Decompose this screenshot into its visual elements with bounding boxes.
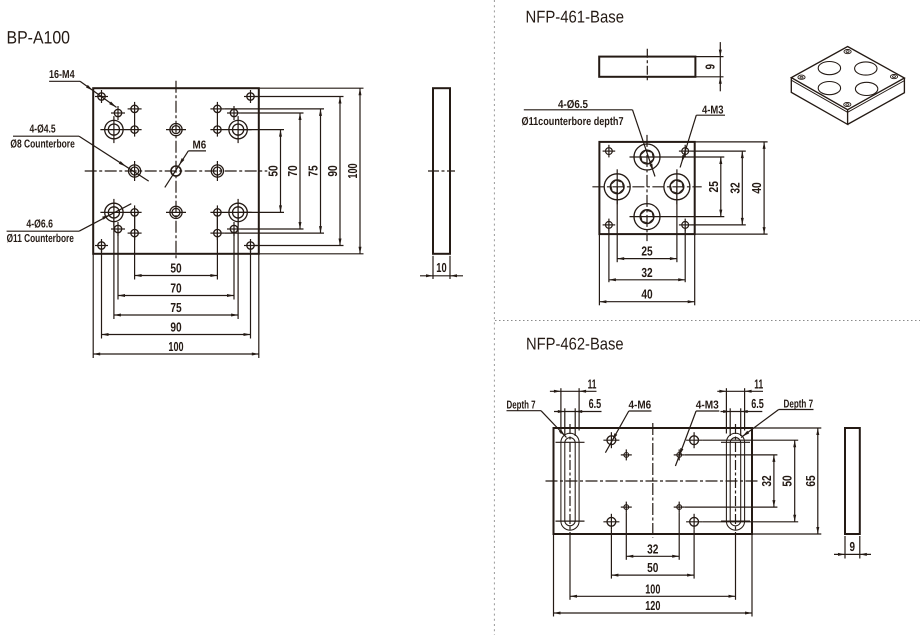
svg-text:40: 40 bbox=[641, 287, 652, 302]
svg-text:4-Ø6.6: 4-Ø6.6 bbox=[26, 218, 53, 230]
extension lines right 50 NFP-462 bbox=[702, 439, 798, 441]
extension lines bottom 32 NFP-461 bbox=[608, 228, 610, 282]
hole M3 corner BR NFP-461 bbox=[682, 222, 689, 229]
svg-text:6.5: 6.5 bbox=[589, 396, 602, 411]
dimension 6.5 right slot bbox=[721, 411, 763, 413]
slot centerline left bbox=[569, 424, 571, 538]
NFP-461 isometric hole UR bbox=[855, 62, 877, 75]
dimension 70 bottom bbox=[118, 295, 234, 297]
svg-text:32: 32 bbox=[759, 475, 774, 486]
NFP-461 isometric hole LL bbox=[818, 82, 840, 95]
counterbore hole Ø6.6/Ø11 (-37.5,25) bbox=[105, 203, 123, 221]
svg-text:32: 32 bbox=[727, 182, 742, 193]
dimension 50 bottom bbox=[135, 275, 218, 277]
hole M3 TR NFP-462 bbox=[677, 453, 682, 458]
svg-text:4-Ø6.5: 4-Ø6.5 bbox=[558, 99, 589, 111]
svg-text:50: 50 bbox=[647, 560, 658, 575]
hole M3 BR NFP-462 bbox=[677, 505, 682, 510]
slot Ø11 counterbore outer right bbox=[726, 433, 744, 530]
extension lines right y=±35 bbox=[241, 112, 304, 114]
svg-text:9: 9 bbox=[850, 539, 856, 554]
extension lines right y=±25 bbox=[238, 129, 284, 131]
hole Ø6.5/Ø11 counterbore right NFP-461 bbox=[664, 174, 690, 200]
extension lines bottom 25 NFP-461 bbox=[616, 187, 618, 262]
extension lines bottom x=±25 bbox=[134, 212, 136, 279]
hole Ø6.5/Ø11 counterbore bottom NFP-461 bbox=[634, 204, 660, 230]
svg-text:4-M3: 4-M3 bbox=[696, 400, 719, 412]
slot arc-center ticks left bbox=[556, 441, 585, 443]
dimension 9 NFP-462 bbox=[844, 536, 846, 559]
svg-text:50: 50 bbox=[780, 475, 795, 486]
dimension 120 bottom NFP-462 bbox=[554, 612, 753, 614]
dimension 32 right NFP-462 bbox=[773, 455, 775, 507]
side view BP-A100 outline bbox=[433, 88, 450, 254]
dimension 65 right NFP-462 bbox=[817, 428, 819, 534]
dimension 100 bottom NFP-462 bbox=[570, 595, 736, 597]
dimension 11 left slot bbox=[550, 390, 597, 392]
counterbore hole Ø6.6/Ø11 (37.5,25) bbox=[229, 203, 247, 221]
dimension 32 right NFP-461 bbox=[741, 151, 743, 225]
svg-text:100: 100 bbox=[645, 581, 660, 596]
separator dotted line vertical bbox=[493, 0, 495, 635]
svg-text:100: 100 bbox=[345, 163, 360, 178]
hole M6 BL NFP-462 bbox=[607, 517, 616, 526]
hole M4 corner BL bbox=[98, 242, 105, 249]
hole M4 (25,-37.5) bbox=[214, 105, 221, 112]
hole M3 BL NFP-462 bbox=[624, 505, 629, 510]
leader 4-M6 bbox=[629, 410, 652, 412]
slot arc-center ticks right bbox=[721, 441, 750, 443]
dimension 25 bottom NFP-461 bbox=[617, 258, 677, 260]
NFP-461 isometric chamfer line left bbox=[791, 80, 847, 112]
NFP-462 side view outline bbox=[845, 428, 860, 534]
svg-text:BP-A100: BP-A100 bbox=[7, 28, 71, 48]
dimension 100 right bbox=[359, 88, 361, 254]
hole M4 (35,-35) bbox=[230, 109, 237, 116]
plate BP-A100 outline bbox=[93, 88, 259, 254]
dimension 32 bottom NFP-461 bbox=[609, 279, 685, 281]
hole M4 (25,-25) bbox=[214, 126, 221, 133]
svg-text:120: 120 bbox=[645, 598, 660, 613]
hole Ø6.5/Ø11 counterbore left NFP-461 bbox=[604, 174, 630, 200]
extension lines right 25 NFP-461 bbox=[665, 156, 725, 158]
svg-text:40: 40 bbox=[749, 182, 764, 193]
hole Ø4.5/Ø8 counterbore top bbox=[170, 124, 182, 136]
hole M4 (-25,37.5) bbox=[131, 229, 138, 236]
NFP-461 front view outline bbox=[599, 142, 694, 234]
leader M6 bbox=[188, 150, 206, 152]
svg-text:Ø11 Counterbore: Ø11 Counterbore bbox=[7, 233, 74, 245]
dimension 70 right bbox=[299, 113, 301, 229]
svg-text:4-Ø4.5: 4-Ø4.5 bbox=[30, 124, 57, 136]
NFP-461 isometric chamfer line right bbox=[848, 81, 905, 113]
extension lines 6.5 left slot bbox=[564, 408, 566, 436]
hole M4 corner TL bbox=[98, 93, 105, 100]
hole M3 corner TL NFP-461 bbox=[606, 148, 613, 155]
hole Ø6.5/Ø11 counterbore top NFP-461 bbox=[634, 144, 660, 170]
NFP-462 vertical centerline bbox=[652, 423, 654, 538]
NFP-461 top view centerline bbox=[646, 49, 648, 83]
svg-text:Depth 7: Depth 7 bbox=[784, 399, 814, 411]
dimension 50 right bbox=[280, 130, 282, 213]
NFP-461 isometric hole UL bbox=[818, 62, 840, 75]
NFP-461 horizontal centerline bbox=[592, 186, 701, 188]
extension lines right 40 NFP-461 bbox=[695, 141, 768, 143]
svg-text:70: 70 bbox=[170, 281, 181, 296]
leader 16-M4 bbox=[49, 80, 80, 82]
hole M6 BR NFP-462 bbox=[690, 517, 699, 526]
extension lines 11 right slot bbox=[725, 388, 727, 433]
cluster centerline horizontal y=-25 TL bbox=[100, 129, 141, 131]
dimension 32 bottom NFP-462 bbox=[626, 555, 679, 557]
NFP-461 isometric corner hole right bbox=[890, 75, 897, 79]
svg-text:Ø8 Counterbore: Ø8 Counterbore bbox=[10, 139, 74, 151]
svg-text:11: 11 bbox=[588, 377, 597, 392]
svg-text:32: 32 bbox=[641, 265, 652, 280]
hole M3 corner BL NFP-461 bbox=[606, 222, 613, 229]
dimension 75 bottom bbox=[114, 314, 238, 316]
NFP-461 vertical centerline bbox=[646, 135, 648, 241]
leader 4-M3 NFP-462 bbox=[696, 410, 719, 412]
hole Ø4.5/Ø8 counterbore left bbox=[129, 165, 141, 177]
hole M6 TR NFP-462 bbox=[690, 436, 699, 445]
plate BP-A100 vertical centerline bbox=[175, 81, 177, 259]
cluster centerline horizontal y=25 BR bbox=[210, 211, 251, 213]
extension lines bottom x=±45 bbox=[101, 249, 103, 339]
extension lines right y=±50 bbox=[259, 87, 364, 89]
slot centerline right bbox=[735, 424, 737, 538]
svg-text:4-M6: 4-M6 bbox=[629, 400, 652, 412]
extension lines bottom x=±50 bbox=[92, 254, 94, 358]
hole M4 (25,25) bbox=[214, 209, 221, 216]
hole M4 (-25,-25) bbox=[131, 126, 138, 133]
svg-text:90: 90 bbox=[325, 165, 340, 176]
cluster centerline vertical x=25 TR bbox=[216, 102, 218, 137]
NFP-461 isometric corner hole left bbox=[798, 75, 805, 79]
extension lines right 32 NFP-462 bbox=[685, 454, 778, 456]
NFP-461 isometric corner hole top bbox=[844, 50, 851, 54]
dimension 90 bottom bbox=[102, 334, 251, 336]
svg-text:25: 25 bbox=[706, 181, 721, 192]
cluster centerline vertical x=-25 TL bbox=[134, 102, 136, 137]
svg-text:Ø11counterbore depth7: Ø11counterbore depth7 bbox=[522, 116, 624, 128]
NFP-461 isometric plate bbox=[791, 47, 904, 110]
hole M4 corner BR bbox=[247, 242, 254, 249]
dimension 10 side view bbox=[432, 256, 434, 279]
svg-text:100: 100 bbox=[168, 339, 183, 354]
hole M6 TL NFP-462 bbox=[607, 436, 616, 445]
hole M3 corner TR NFP-461 bbox=[682, 148, 689, 155]
leader Depth 7 right bbox=[779, 409, 814, 411]
extension lines bottom 50 NFP-462 bbox=[610, 530, 612, 579]
hole M4 (-25,-37.5) bbox=[131, 105, 138, 112]
svg-text:75: 75 bbox=[306, 165, 321, 176]
extension lines bottom x=±35 bbox=[117, 229, 119, 300]
dimension 40 bottom NFP-461 bbox=[599, 301, 694, 303]
slot Ø6.5 inner right bbox=[730, 438, 741, 526]
extension lines bottom 40 NFP-461 bbox=[598, 234, 600, 305]
counterbore hole Ø6.6/Ø11 (-37.5,-25) bbox=[105, 120, 123, 138]
cluster centerline vertical x=-25 BL bbox=[134, 205, 136, 240]
cluster centerline horizontal y=-25 TR bbox=[210, 129, 251, 131]
svg-text:9: 9 bbox=[702, 64, 717, 70]
svg-text:75: 75 bbox=[170, 300, 181, 315]
dimension 75 right bbox=[320, 109, 322, 233]
svg-text:25: 25 bbox=[641, 244, 652, 259]
dimension 50 bottom NFP-462 bbox=[611, 574, 694, 576]
plate BP-A100 horizontal centerline bbox=[85, 170, 268, 172]
extension lines bottom x=±37.5 bbox=[113, 212, 115, 319]
extension lines right y=±45 bbox=[254, 96, 344, 98]
side view centerline bbox=[428, 170, 455, 172]
extension lines 11 left slot bbox=[560, 388, 562, 433]
counterbore hole Ø6.6/Ø11 (37.5,-25) bbox=[229, 120, 247, 138]
NFP-461 isometric corner hole bottom bbox=[844, 102, 851, 106]
dimension 50 right NFP-462 bbox=[794, 440, 796, 522]
cluster centerline horizontal y=25 BL bbox=[100, 211, 141, 213]
dimension 25 right NFP-461 bbox=[720, 157, 722, 217]
extension lines right 32 NFP-461 bbox=[692, 150, 746, 152]
hole M4 (25,37.5) bbox=[214, 229, 221, 236]
svg-text:10: 10 bbox=[436, 260, 446, 275]
svg-text:50: 50 bbox=[266, 165, 281, 176]
dimension 100 bottom bbox=[93, 353, 259, 355]
NFP-461 top view outline bbox=[599, 57, 695, 77]
NFP-462 outline bbox=[554, 428, 753, 534]
leader 4-M3 NFP-461 bbox=[696, 114, 725, 116]
svg-text:50: 50 bbox=[170, 261, 181, 276]
NFP-462 horizontal centerline bbox=[546, 480, 761, 482]
hole M4 corner TR bbox=[247, 93, 254, 100]
dimension 40 right NFP-461 bbox=[763, 142, 765, 234]
svg-text:65: 65 bbox=[803, 475, 818, 486]
NFP-461 isometric hole LR bbox=[855, 82, 877, 95]
svg-text:NFP-461-Base: NFP-461-Base bbox=[526, 7, 625, 26]
dimension 9 NFP-461 bbox=[695, 56, 723, 58]
hole M4 (35,35) bbox=[230, 225, 237, 232]
svg-text:70: 70 bbox=[285, 165, 300, 176]
svg-text:90: 90 bbox=[170, 320, 181, 335]
svg-text:11: 11 bbox=[754, 377, 763, 392]
svg-text:NFP-462-Base: NFP-462-Base bbox=[526, 334, 624, 353]
extension lines bottom 120 NFP-462 bbox=[553, 534, 555, 617]
extension lines right y=±37.5 bbox=[224, 108, 324, 110]
svg-text:Depth 7: Depth 7 bbox=[507, 400, 536, 412]
slot Ø6.5 inner left bbox=[565, 438, 575, 526]
svg-text:6.5: 6.5 bbox=[751, 396, 764, 411]
extension lines bottom 32 NFP-462 bbox=[625, 513, 627, 560]
extension lines right 65 NFP-462 bbox=[752, 427, 821, 429]
extension lines 6.5 right slot bbox=[729, 408, 731, 436]
hole Ø4.5/Ø8 counterbore bottom bbox=[170, 206, 182, 218]
hole M4 (-35,35) bbox=[114, 225, 121, 232]
hole M6 center bbox=[171, 166, 181, 176]
svg-text:16-M4: 16-M4 bbox=[49, 69, 75, 81]
dimension 90 right bbox=[339, 97, 341, 246]
hole Ø4.5/Ø8 counterbore right bbox=[211, 165, 223, 177]
leader 4-Ø6.6 bbox=[7, 230, 80, 232]
slot Ø11 counterbore outer left bbox=[561, 433, 579, 530]
hole M4 (-25,25) bbox=[131, 209, 138, 216]
dimension 6.5 left slot bbox=[554, 411, 602, 413]
separator dotted line horizontal bbox=[495, 320, 920, 322]
leader Depth 7 left bbox=[507, 410, 542, 412]
leader 4-Ø6.5 bbox=[524, 109, 633, 111]
svg-text:32: 32 bbox=[647, 541, 658, 556]
dimension 11 right slot bbox=[717, 390, 763, 392]
cluster centerline vertical x=25 BR bbox=[216, 205, 218, 240]
leader 4-Ø4.5 bbox=[13, 135, 79, 137]
extension lines bottom 100 NFP-462 bbox=[569, 538, 571, 600]
hole M4 (-35,-35) bbox=[114, 109, 121, 116]
hole M3 TL NFP-462 bbox=[624, 453, 629, 458]
svg-text:M6: M6 bbox=[193, 140, 207, 152]
